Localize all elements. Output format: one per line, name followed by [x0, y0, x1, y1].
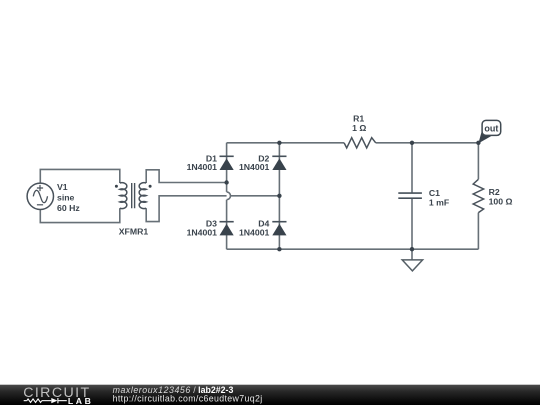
- svg-text:1N4001: 1N4001: [187, 228, 218, 238]
- svg-text:60 Hz: 60 Hz: [57, 203, 80, 213]
- wire lower bridge segment: [231, 195, 279, 197]
- svg-text:V1: V1: [57, 182, 68, 192]
- wire bottom rail: [227, 248, 479, 250]
- junction dot C1 top: [410, 141, 414, 145]
- diode D3: [220, 222, 234, 236]
- transformer XFMR1 primary coil: [120, 183, 127, 209]
- svg-text:1N4001: 1N4001: [239, 162, 270, 172]
- junction dot bridge top right: [277, 141, 281, 145]
- diode D1: [220, 156, 234, 170]
- transformer phase dot primary: [115, 185, 118, 188]
- wire top rail: [227, 142, 479, 144]
- junction dot bridge left mid: [224, 180, 228, 184]
- wire right vertical out: [477, 143, 479, 249]
- wire V1 loop top: [40, 169, 120, 183]
- svg-text:XFMR1: XFMR1: [119, 226, 149, 236]
- wire bridge left vertical: [226, 143, 228, 249]
- node out flag: [476, 120, 501, 145]
- svg-text:out: out: [484, 123, 498, 133]
- junction dot C1 bottom: [410, 247, 414, 251]
- svg-text:100 Ω: 100 Ω: [489, 197, 513, 207]
- wire C1 branch: [411, 143, 413, 249]
- logo diode glyph: [51, 398, 57, 403]
- resistor R1: [344, 138, 376, 148]
- resistor R2: [473, 179, 483, 212]
- transformer core: [132, 183, 135, 208]
- ground: [411, 249, 413, 260]
- transformer phase dot secondary: [149, 185, 152, 188]
- svg-text:1 Ω: 1 Ω: [352, 123, 366, 133]
- wire secondary bottom lead: [146, 196, 227, 222]
- wire V1 loop bottom: [40, 208, 120, 222]
- junction dot bridge bottom right: [277, 247, 281, 251]
- diode D2: [272, 156, 286, 170]
- wire hop on left bridge line: [227, 192, 231, 200]
- logo schematic line: [24, 398, 67, 403]
- wire secondary top lead: [146, 170, 226, 183]
- svg-text:1 mF: 1 mF: [429, 198, 449, 208]
- capacitor C1: [398, 193, 422, 198]
- voltage source V1: [27, 183, 53, 209]
- svg-text:1N4001: 1N4001: [187, 162, 218, 172]
- wire bridge right vertical: [278, 143, 280, 249]
- junction dot bridge right mid: [277, 194, 281, 198]
- svg-text:http://circuitlab.com/c6eudtew: http://circuitlab.com/c6eudtew7uq2j: [113, 393, 263, 403]
- diode D4: [272, 222, 286, 236]
- svg-text:sine: sine: [57, 193, 75, 203]
- svg-text:1N4001: 1N4001: [239, 228, 270, 238]
- transformer XFMR1 secondary coil: [139, 183, 146, 209]
- svg-text:LAB: LAB: [68, 396, 94, 405]
